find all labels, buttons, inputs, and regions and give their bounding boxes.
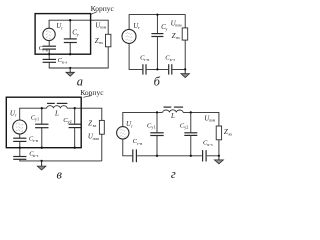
svg-text:к-з: к-з [62, 60, 68, 65]
svg-text:Корпус: Корпус [91, 4, 115, 13]
svg-text:Корпус: Корпус [80, 88, 104, 97]
svg-text:г: г [138, 25, 140, 30]
svg-text:у2: у2 [184, 125, 188, 130]
svg-text:у1: у1 [151, 125, 155, 130]
svg-text:L: L [170, 112, 175, 120]
svg-text:г: г [15, 113, 17, 118]
svg-text:пом: пом [93, 137, 100, 141]
svg-text:вх: вх [229, 133, 233, 137]
svg-text:г: г [131, 123, 133, 128]
svg-text:к-з: к-з [33, 153, 39, 158]
svg-text:г-в: г-в [43, 48, 48, 53]
svg-text:г-в: г-в [137, 141, 142, 146]
svg-text:вх: вх [99, 41, 103, 45]
svg-text:к-з: к-з [207, 142, 213, 147]
svg-text:вх: вх [93, 124, 97, 128]
svg-text:г: г [61, 26, 63, 31]
svg-text:у1: у1 [35, 117, 39, 122]
svg-text:пом: пом [175, 24, 182, 28]
svg-text:у2: у2 [67, 119, 71, 124]
svg-text:Z: Z [95, 37, 99, 45]
svg-text:Z: Z [88, 119, 92, 127]
svg-text:к-з: к-з [170, 57, 176, 62]
svg-text:пом: пом [100, 26, 107, 30]
svg-text:L: L [54, 109, 59, 117]
svg-text:вх: вх [176, 36, 180, 40]
svg-text:Z: Z [172, 32, 176, 40]
svg-text:в: в [57, 168, 63, 182]
svg-text:г: г [171, 167, 176, 181]
svg-text:Z: Z [224, 128, 228, 136]
svg-text:б: б [154, 75, 161, 89]
svg-text:г-в: г-в [33, 138, 38, 143]
svg-text:а: а [77, 75, 83, 89]
svg-text:г-в: г-в [144, 57, 149, 62]
svg-text:пом: пом [209, 119, 216, 123]
